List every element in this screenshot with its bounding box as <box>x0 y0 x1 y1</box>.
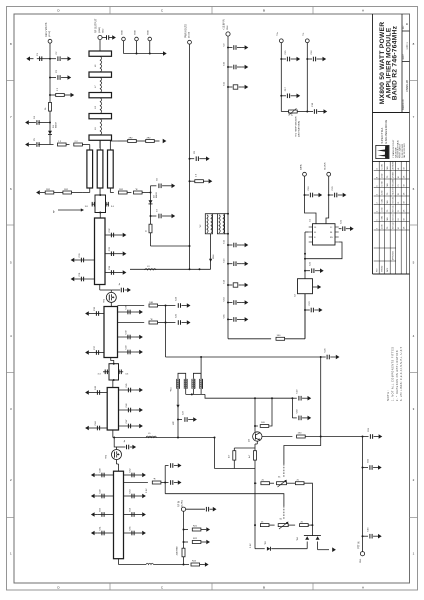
svg-text:Q3: Q3 <box>248 438 250 442</box>
svg-text:*R: *R <box>135 189 138 191</box>
connector REFL VOLTS <box>48 39 52 43</box>
svg-text:PG: PG <box>387 209 389 212</box>
transformer L2A bifilar choke <box>205 214 212 234</box>
resistor R17 <box>287 482 296 484</box>
connector GND3 <box>148 37 152 41</box>
svg-text:TR1: TR1 <box>104 298 106 303</box>
ground <box>29 122 36 124</box>
svg-text:U2: U2 <box>295 293 297 297</box>
wire gnd bus <box>124 53 161 55</box>
svg-text:5.1.04: 5.1.04 <box>382 224 384 229</box>
svg-text:7: 7 <box>413 115 415 119</box>
capacitor C46 <box>119 409 137 411</box>
svg-text:3. LPF LINKS: C,E,K,F,I,V,N,P: 3. LPF LINKS: C,E,K,F,I,V,N,P,L, U,X,Y <box>400 346 403 401</box>
svg-text:C63: C63 <box>368 527 370 532</box>
capacitor C64 <box>227 302 229 304</box>
svg-text:C26: C26 <box>325 348 327 353</box>
svg-text:2k: 2k <box>262 479 265 481</box>
wire <box>227 36 229 339</box>
capacitor C20 <box>328 194 330 196</box>
ground <box>317 58 323 60</box>
svg-text:C13: C13 <box>224 258 226 263</box>
capacitor C5 <box>38 144 50 146</box>
svg-text:DATA: DATA <box>299 164 302 170</box>
svg-text:C16: C16 <box>311 50 313 55</box>
svg-text:C34: C34 <box>109 265 111 270</box>
svg-text:2R2: 2R2 <box>46 189 51 191</box>
stripline coupler stub Z1 <box>87 150 93 188</box>
RF flow arrow <box>58 209 81 211</box>
resistor R22 <box>183 541 185 543</box>
resistor R9 <box>276 337 285 340</box>
svg-text:3.6.02: 3.6.02 <box>382 173 384 178</box>
wire <box>271 548 307 550</box>
svg-text:2: 2 <box>377 194 379 195</box>
svg-text:REFL VOLTS: REFL VOLTS <box>45 22 48 37</box>
transistor Q3 BD140 <box>253 432 262 441</box>
wire <box>50 144 54 146</box>
svg-text:OK: OK <box>404 209 406 212</box>
svg-text:MJH: MJH <box>387 199 389 203</box>
ground <box>139 388 143 393</box>
svg-text:2k: 2k <box>301 521 304 523</box>
svg-text:*FL1: *FL1 <box>171 387 173 392</box>
svg-text:RF: RF <box>54 209 56 213</box>
capacitor C53 <box>124 495 140 497</box>
ground <box>245 317 249 322</box>
svg-text:A: A <box>362 586 364 590</box>
svg-text:ECN 133: ECN 133 <box>393 222 395 229</box>
border zone ticks left <box>7 80 15 82</box>
resistor R2 <box>49 103 52 112</box>
ground <box>332 547 336 552</box>
wire choke to drain bus <box>210 234 212 269</box>
svg-text:C12: C12 <box>224 239 226 244</box>
wire <box>305 436 362 438</box>
svg-text:CS: CS <box>314 227 316 229</box>
capacitor C68 <box>106 203 109 205</box>
border zone ticks bottom <box>109 583 111 590</box>
svg-text:C52: C52 <box>130 468 132 473</box>
capacitor C47 <box>119 425 137 427</box>
ground <box>210 508 213 510</box>
svg-text:C39: C39 <box>126 330 128 335</box>
svg-text:B1: B1 <box>398 176 400 178</box>
wire <box>113 437 115 439</box>
stripline Z4 stage1 input <box>95 218 106 285</box>
svg-text:FAX 08 9350 6411: FAX 08 9350 6411 <box>403 143 406 158</box>
svg-text:C45: C45 <box>126 383 128 388</box>
wire <box>254 482 256 484</box>
diode D2 BAR28 <box>149 200 153 203</box>
ground <box>91 473 95 478</box>
svg-text:D: D <box>57 586 60 590</box>
wire <box>161 482 165 484</box>
svg-text:C46: C46 <box>126 403 128 408</box>
svg-text:C24: C24 <box>176 296 178 301</box>
stripline Z11 <box>89 72 112 77</box>
capacitor C3 <box>49 77 51 79</box>
svg-text:2R2: 2R2 <box>64 189 69 191</box>
connector CN4 +13.8V IN <box>226 32 230 36</box>
svg-text:D1: D1 <box>53 124 55 128</box>
wire <box>304 294 306 339</box>
svg-text:OK: OK <box>404 226 406 229</box>
svg-text:DATE: DATE <box>386 268 389 272</box>
capacitor C31 <box>78 278 95 280</box>
wire <box>228 338 271 340</box>
capacitor C34 <box>105 272 120 274</box>
stripline Z13 <box>89 114 112 119</box>
inductor L12 comb filter <box>183 379 185 389</box>
wire input bus <box>183 564 185 566</box>
resistor R25 <box>45 191 54 194</box>
svg-text:4: 4 <box>10 334 12 338</box>
ground <box>142 473 146 478</box>
trimpot RV2 <box>269 524 275 526</box>
capacitor C23 <box>304 309 306 311</box>
capacitor C14 <box>227 284 229 286</box>
ground <box>142 512 146 517</box>
capacitor C1 <box>49 58 51 60</box>
capacitor C49 <box>98 495 114 497</box>
svg-text:C7: C7 <box>157 208 159 212</box>
wire coupler termination forward <box>110 141 118 150</box>
title block field dividers <box>401 14 403 113</box>
capacitor C19 <box>304 194 306 196</box>
wire <box>254 398 256 432</box>
svg-text:*D4: *D4 <box>297 537 299 541</box>
inductor L4 <box>146 563 154 564</box>
resistor R28 <box>146 140 155 143</box>
ground <box>109 37 113 39</box>
svg-text:C8: C8 <box>194 150 196 154</box>
wire pot2 wiper dashed link <box>283 506 285 520</box>
ground <box>188 419 193 421</box>
wire <box>177 389 179 438</box>
ground <box>338 194 343 196</box>
svg-text:TS+: TS+ <box>277 31 279 36</box>
wire <box>82 144 89 146</box>
svg-text:2.9.03: 2.9.03 <box>382 216 384 221</box>
svg-text:3: 3 <box>413 407 415 411</box>
svg-text:C: C <box>161 9 164 13</box>
svg-text:LPF: LPF <box>173 420 175 425</box>
svg-text:5: 5 <box>10 261 12 265</box>
capacitor C40 <box>118 351 137 353</box>
wire coupler termination reflected <box>89 188 91 193</box>
svg-text:10R: 10R <box>149 302 153 304</box>
capacitor C36 <box>92 313 104 315</box>
ground <box>130 446 133 448</box>
resistor R10 <box>149 304 158 307</box>
svg-text:MJH: MJH <box>387 182 389 186</box>
capacitor C38 <box>118 311 137 313</box>
svg-text:D: D <box>57 9 60 13</box>
border zone ticks right <box>410 80 418 82</box>
svg-text:OK: OK <box>404 200 406 203</box>
capacitor C15 <box>280 58 282 60</box>
svg-text:3.0V: 3.0V <box>146 488 148 493</box>
svg-text:GND: GND <box>148 30 150 35</box>
wire <box>254 483 256 549</box>
resistor R11 <box>149 321 158 324</box>
svg-text:5.6V: 5.6V <box>250 543 252 548</box>
svg-text:ECN 115: ECN 115 <box>393 206 395 212</box>
capacitor C11 <box>227 86 229 88</box>
wire <box>305 242 342 259</box>
svg-text:REV: REV <box>377 268 379 272</box>
resistor R13 <box>297 435 306 438</box>
capacitor C51 <box>98 532 114 534</box>
svg-text:OK: OK <box>404 192 406 195</box>
svg-text:-3dB PAD: -3dB PAD <box>176 546 179 556</box>
svg-text:C53: C53 <box>130 489 132 494</box>
wire stage1 drain bus <box>130 268 211 270</box>
svg-text:4: 4 <box>377 211 379 212</box>
ground <box>330 356 336 358</box>
svg-text:3: 3 <box>377 203 379 204</box>
wire <box>291 398 293 418</box>
svg-text:*D3: *D3 <box>265 541 267 545</box>
svg-text:DRAWING NO: DRAWING NO <box>402 99 405 110</box>
wire <box>123 41 125 54</box>
resistor R24 <box>191 563 200 566</box>
svg-text:1K0: 1K0 <box>277 335 282 337</box>
ground <box>163 139 167 144</box>
svg-text:ISSUED: ISSUED <box>382 265 384 272</box>
stripline Z5 stage1 output <box>104 307 118 358</box>
svg-text:NOTE:: NOTE: <box>387 390 390 401</box>
svg-text:C54: C54 <box>130 507 132 512</box>
wire <box>304 483 312 535</box>
svg-text:1: 1 <box>10 552 12 556</box>
wire <box>149 41 151 54</box>
svg-text:(ON HEATSINK): (ON HEATSINK) <box>298 121 301 137</box>
svg-text:OK: OK <box>404 217 406 220</box>
svg-text:G1: G1 <box>398 218 400 220</box>
svg-text:B: B <box>263 9 265 13</box>
svg-text:R22: R22 <box>193 538 198 540</box>
svg-text:TR2: TR2 <box>105 454 107 459</box>
capacitor C4 <box>49 122 51 124</box>
stripline Z12 <box>89 93 112 98</box>
diode D5 <box>316 536 320 539</box>
ground <box>61 58 67 60</box>
inductor L14 comb filter <box>199 379 201 389</box>
svg-text:APPROVED: APPROVED <box>392 250 395 260</box>
wire <box>118 305 145 307</box>
ground <box>245 261 249 266</box>
capacitor C16 <box>306 58 308 60</box>
capacitor C30 <box>78 259 95 261</box>
title block outline <box>372 14 374 274</box>
ground <box>61 77 67 79</box>
capacitor C8 <box>189 158 191 160</box>
inductor L5 <box>146 436 157 437</box>
svg-text:D2: D2 <box>153 194 155 198</box>
wire <box>142 192 150 194</box>
svg-text:C50: C50 <box>100 507 102 512</box>
inductor L3 <box>145 269 156 270</box>
svg-text:RF OUTPUT: RF OUTPUT <box>95 18 98 33</box>
svg-text:F1: F1 <box>398 210 400 212</box>
IC U2 regulator <box>298 279 313 294</box>
resistor R14 <box>233 448 235 451</box>
wire <box>280 43 282 112</box>
stripline Z7 <box>114 471 124 559</box>
inductor L13 <box>100 119 101 135</box>
svg-text:5: 5 <box>377 220 379 221</box>
svg-text:1: 1 <box>413 552 415 556</box>
capacitor C9 <box>227 47 229 49</box>
svg-text:6: 6 <box>377 228 379 229</box>
svg-text:C2: C2 <box>56 51 58 55</box>
svg-text:6: 6 <box>413 187 415 191</box>
connector GND2 <box>135 37 139 41</box>
ground <box>201 541 206 543</box>
svg-text:4.2.03: 4.2.03 <box>382 190 384 195</box>
svg-text:R24: R24 <box>192 561 197 563</box>
ground <box>245 45 249 50</box>
resistor R19 <box>288 524 295 526</box>
svg-text:2k: 2k <box>297 479 300 481</box>
ground <box>302 417 307 419</box>
ground <box>85 350 89 355</box>
capacitor C33 <box>105 253 120 255</box>
wire <box>305 176 317 224</box>
ground <box>373 467 378 469</box>
wire <box>158 322 166 324</box>
svg-text:C5: C5 <box>34 137 36 141</box>
capacitor C62 <box>362 467 364 469</box>
wire bias bus vertical <box>165 306 167 358</box>
wire <box>233 460 235 468</box>
svg-text:1 OF 1: 1 OF 1 <box>406 42 409 50</box>
capacitor C60 <box>292 417 296 419</box>
svg-text:ECN 102: ECN 102 <box>393 197 395 204</box>
capacitor C35 gate <box>111 289 120 291</box>
ground <box>373 535 378 537</box>
diode D4 <box>305 536 309 539</box>
resistor R6 <box>127 192 131 194</box>
resistor R18 <box>260 524 269 527</box>
inductor L10 <box>100 56 101 72</box>
svg-text:C36: C36 <box>94 306 96 311</box>
svg-text:C22: C22 <box>310 261 312 266</box>
svg-text:2R2: 2R2 <box>147 137 152 139</box>
svg-text:OK: OK <box>404 183 406 186</box>
ground <box>201 529 206 531</box>
capacitor C22 <box>305 270 310 272</box>
wire <box>49 43 51 144</box>
wire <box>269 398 272 426</box>
resistor R12 <box>254 425 256 427</box>
svg-text:RB: RB <box>330 232 332 234</box>
svg-text:BAND R2 746-764MHz: BAND R2 746-764MHz <box>392 25 399 100</box>
connector TS1 <box>279 39 283 43</box>
ground <box>291 95 297 97</box>
svg-text:(0.2W): (0.2W) <box>182 500 184 507</box>
svg-text:RELEASE: RELEASE <box>392 179 395 186</box>
ground <box>139 424 143 429</box>
resistor R1 <box>49 94 51 96</box>
svg-text:2: 2 <box>413 478 415 482</box>
svg-text:BAR28: BAR28 <box>155 192 158 198</box>
svg-text:PG: PG <box>387 226 389 229</box>
wire drain bus stage2 <box>112 430 114 438</box>
svg-text:+13.8V IN: +13.8V IN <box>222 19 225 30</box>
svg-text:C33: C33 <box>109 246 111 251</box>
svg-text:8: 8 <box>413 42 415 46</box>
diode D3 zener <box>267 547 270 551</box>
svg-text:C43: C43 <box>95 385 97 390</box>
svg-text:1MH: 1MH <box>213 254 215 259</box>
ground <box>85 311 89 316</box>
stripline Z6 <box>107 388 118 431</box>
svg-text:9.5.03: 9.5.03 <box>382 199 384 204</box>
wire <box>200 357 202 379</box>
wire <box>118 140 128 142</box>
svg-text:C29: C29 <box>297 389 299 394</box>
ground <box>91 512 95 517</box>
ground <box>200 564 205 566</box>
svg-text:*R: *R <box>153 479 156 481</box>
svg-text:C51: C51 <box>100 526 102 531</box>
IC U1 DAC <box>313 224 336 245</box>
svg-text:C19: C19 <box>308 186 310 191</box>
ground <box>71 258 75 263</box>
svg-text:GND: GND <box>134 30 136 35</box>
ground <box>123 233 127 238</box>
svg-text:C1: C1 <box>398 184 400 186</box>
svg-text:C61: C61 <box>368 427 370 432</box>
transistor Q2 RF MOSFET <box>112 450 122 460</box>
connector CN3 RF IN <box>181 507 185 511</box>
capacitor C32 <box>105 234 120 236</box>
svg-text:5k: 5k <box>280 518 283 520</box>
capacitor C21 <box>339 228 342 230</box>
svg-text:C4: C4 <box>34 115 36 119</box>
capacitor C65 <box>227 318 229 320</box>
svg-text:R21: R21 <box>193 526 198 528</box>
svg-text:C40: C40 <box>126 345 128 350</box>
capacitor C42 <box>119 371 124 373</box>
ground <box>182 305 187 307</box>
ground <box>203 180 208 182</box>
svg-text:C55: C55 <box>130 526 132 531</box>
connector PWR VOLTS <box>188 40 192 44</box>
wire <box>158 305 166 307</box>
svg-text:C3: C3 <box>56 69 58 73</box>
svg-text:ECN 121: ECN 121 <box>393 214 395 221</box>
wire <box>113 363 115 365</box>
inductor L11 <box>100 77 101 92</box>
svg-text:1: 1 <box>377 186 379 187</box>
svg-text:3.3: 3.3 <box>98 374 102 376</box>
ground <box>174 465 178 467</box>
wire <box>89 145 91 151</box>
resistor R26 <box>54 192 63 194</box>
svg-text:1n: 1n <box>119 282 121 285</box>
svg-text:A1: A1 <box>397 167 400 169</box>
attenuator pad box AT1 <box>95 195 106 213</box>
svg-text:C: C <box>161 586 164 590</box>
capacitor C2 <box>50 58 56 60</box>
svg-text:2.2: 2.2 <box>58 141 62 143</box>
svg-text:C25: C25 <box>176 313 178 318</box>
connector GND1 <box>122 37 126 41</box>
